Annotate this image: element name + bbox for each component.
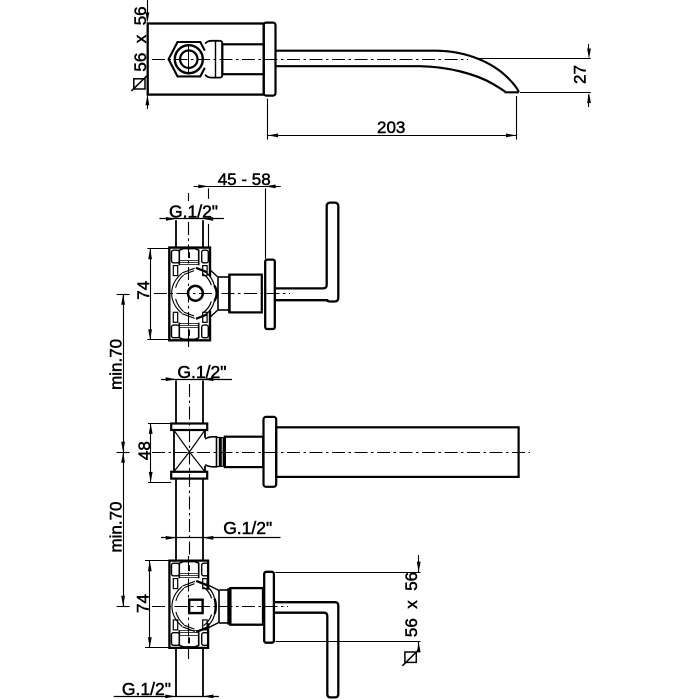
svg-text:G.1/2": G.1/2": [122, 679, 171, 699]
svg-text:56 x 56: 56 x 56: [131, 6, 150, 71]
svg-text:74: 74: [134, 281, 153, 300]
svg-text:min.70: min.70: [107, 501, 126, 552]
svg-text:G.1/2": G.1/2": [177, 362, 226, 382]
svg-text:203: 203: [377, 118, 405, 137]
svg-text:27: 27: [571, 65, 590, 84]
svg-text:74: 74: [134, 594, 153, 613]
svg-text:G.1/2": G.1/2": [223, 518, 272, 538]
svg-text:G.1/2": G.1/2": [169, 202, 218, 222]
svg-text:min.70: min.70: [107, 339, 126, 390]
svg-text:45 - 58: 45 - 58: [218, 170, 271, 189]
svg-text:48: 48: [135, 441, 154, 460]
svg-text:56 x 56: 56 x 56: [402, 572, 421, 637]
